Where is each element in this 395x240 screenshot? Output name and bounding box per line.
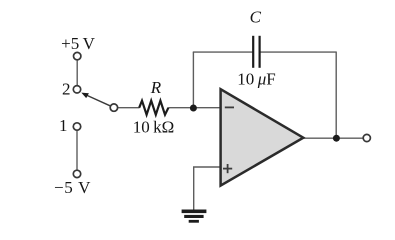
op-amp minus sign [225,106,234,108]
terminal circle throw 1 [73,123,80,130]
op-amp plus sign [223,164,232,173]
svg-text:10 μF: 10 μF [237,69,275,88]
junction dot at inverting input node [190,105,197,112]
switch pole circle [110,104,117,111]
terminal circle throw 2 [73,86,80,93]
terminal circle -5V [73,170,80,177]
wire: op-amp output to terminal [303,137,363,139]
wire: switch pole to resistor [118,107,140,109]
wire: non-inverting input to ground drop [194,167,221,210]
svg-text:1: 1 [59,116,68,135]
output terminal circle [363,134,370,141]
svg-text:10 kΩ: 10 kΩ [133,117,175,136]
resistor R1 zigzag [139,101,168,115]
wire: feedback rail left segment to capacitor [193,51,253,53]
svg-text:2: 2 [62,79,71,98]
wire: +5V terminal to switch throw 2 [76,60,78,86]
capacitor C plates [253,36,259,68]
svg-text:C: C [250,8,262,27]
wire: switch throw 1 to -5V terminal [76,130,78,170]
ground symbol [182,210,207,223]
wire: junction up to feedback rail [192,52,194,108]
op-amp U1 triangle [221,89,304,185]
svg-text:+5 V: +5 V [61,34,95,53]
wire: feedback rail down to output junction [335,52,337,139]
wire: resistor to op-amp inverting input [168,107,220,109]
svg-text:R: R [150,78,162,97]
wire: capacitor to feedback rail right corner [260,51,337,53]
junction dot at output node [333,135,340,142]
svg-text:−5 V: −5 V [54,178,91,197]
switch arm with arrow toward position 2 [81,93,111,107]
terminal circle +5V [74,52,81,59]
